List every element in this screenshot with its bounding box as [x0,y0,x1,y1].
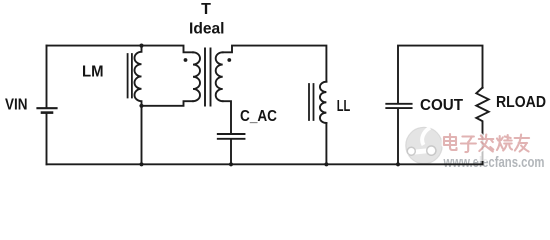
svg-text:VIN: VIN [5,97,28,114]
watermark logo [406,127,442,163]
wire LM bottom down [141,106,143,165]
watermark chinese text 电子发烧友 [444,134,529,152]
wire secondary bottom stub to C_AC [223,101,231,133]
node junction dot LL bottom rail [324,162,328,166]
capacitor C_AC [218,133,245,135]
wire LM bottom to primary stub [142,101,194,106]
svg-text:LM: LM [82,64,104,81]
node junction dot LM bottom rail [139,162,143,166]
transformer core lines [205,49,211,106]
LM core lines [128,54,132,98]
node junction dot COUT bottom rail [396,162,400,166]
svg-text:Ideal: Ideal [189,21,225,38]
node junction dot LM mid [139,104,143,108]
phase dot secondary [227,58,231,62]
capacitor COUT [386,103,411,105]
wire secondary top stub to LL [223,46,327,82]
inductor LL coil [320,82,327,123]
inductor LM coil [135,46,142,106]
node junction dot C_AC bottom rail [229,162,233,166]
node junction dot LM top [139,44,143,48]
wire top-left horizontal [47,46,194,53]
svg-text:www.elecfans.com: www.elecfans.com [443,155,545,171]
wire left vertical (VIN branch) [46,46,48,108]
watermark whiteout behind chars [477,150,488,161]
svg-text:LL: LL [337,98,351,115]
wire output loop top [398,46,483,103]
wire LL bottom down [325,123,327,164]
svg-text:RLOAD: RLOAD [496,94,546,111]
LL core lines [309,84,314,120]
transformer T primary winding [193,52,200,101]
battery VIN source [38,107,57,109]
svg-text:C_AC: C_AC [240,108,277,125]
transformer T secondary winding [216,52,223,101]
wire bottom rail [47,163,483,165]
svg-text:COUT: COUT [420,97,463,114]
phase dot primary [184,58,188,62]
svg-text:T: T [201,1,211,18]
resistor RLOAD zigzag [476,88,488,165]
